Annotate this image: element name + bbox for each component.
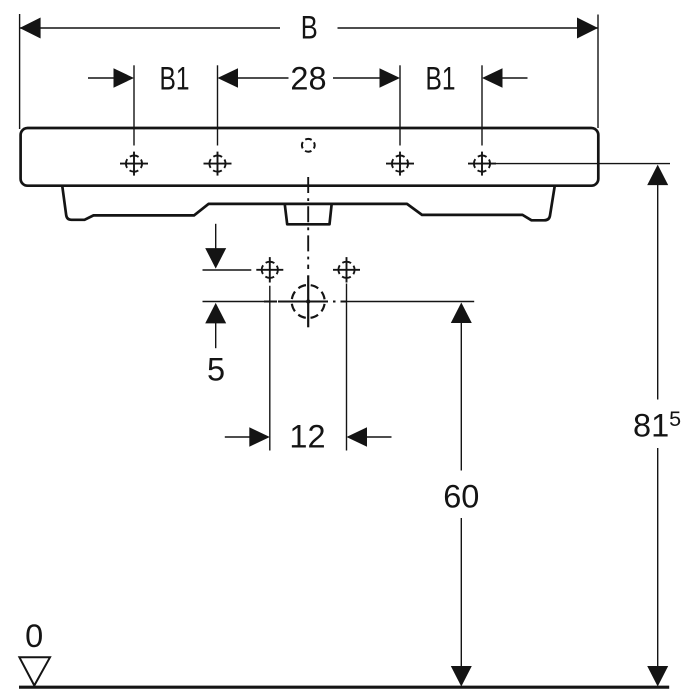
dimension 28 right arrow (380, 68, 401, 87)
horizontal centerline dash-dot (264, 301, 347, 303)
dimension B arrow left (20, 18, 41, 39)
washbasin apron profile (62, 186, 555, 221)
svg-text:12: 12 (289, 419, 325, 455)
dimension 12 right shaft (367, 436, 392, 438)
dimension 28 right shaft (333, 77, 380, 79)
dimension 60 shaft upper (460, 323, 462, 471)
reference line from hole 4 to 81.5 dimension (482, 163, 670, 165)
dimension B1 right arrow (482, 68, 503, 87)
dimension 12 left arrow (249, 427, 269, 446)
overflow hole dashed circle (302, 139, 315, 152)
fixing hole crosshair 1 (120, 152, 148, 176)
svg-text:60: 60 (443, 479, 479, 515)
dimension 60 bottom arrow (451, 666, 472, 687)
dimension B extension line left (19, 14, 21, 129)
vertical centerline dash-dot (307, 177, 309, 269)
dimension B1 left arrow (114, 68, 135, 87)
tap hole crosshair left (256, 257, 283, 282)
dimension B1 left shaft (88, 77, 114, 79)
tap hole crosshair right (333, 257, 360, 282)
extension line hole 2 (217, 65, 219, 145)
dimension 81.5 bottom arrow (647, 666, 668, 687)
dimension B arrow right (577, 18, 598, 39)
extension line tap hole left (269, 286, 271, 451)
dimension B extension line right (597, 15, 599, 129)
svg-text:28: 28 (290, 61, 326, 97)
dimension 12 right arrow (347, 427, 368, 446)
dimension 5 top arrow shaft (215, 224, 217, 249)
dimension 81.5 top arrow (647, 165, 668, 186)
drain notch (285, 205, 332, 225)
dimension 28 left shaft (238, 77, 289, 79)
dimension 60 top arrow (451, 303, 472, 324)
svg-text:0: 0 (25, 618, 43, 654)
svg-text:B1: B1 (160, 61, 190, 97)
faucet hole horizontal tick (278, 301, 325, 303)
dimension 5 bottom arrow (205, 303, 226, 324)
reference line to 60 dimension (347, 301, 474, 303)
dimension 60 shaft lower (460, 518, 462, 667)
dimension B line (20, 27, 280, 29)
ground line (19, 686, 669, 689)
fixing hole crosshair 4 (468, 152, 496, 176)
svg-text:5: 5 (207, 351, 225, 387)
dimension B1 right shaft (503, 77, 528, 79)
horizontal centerline: solid segment (203, 301, 265, 303)
fixing hole crosshair 2 (204, 152, 232, 176)
svg-text:B: B (301, 10, 318, 46)
extension line tap hole right (346, 284, 348, 451)
extension line hole 1 (133, 65, 135, 145)
reference line for 5 dimension top (203, 269, 252, 271)
faucet hole dashed circle (292, 285, 325, 318)
extension line hole 4 (481, 65, 483, 145)
faucet hole center dot (306, 299, 310, 303)
dimension 5 top arrow (205, 248, 226, 269)
washbasin outline (21, 128, 599, 186)
faucet hole vertical tick (307, 275, 309, 327)
dimension 81.5 shaft upper (657, 185, 659, 400)
dimension 28 left arrow (218, 68, 239, 87)
datum triangle (19, 657, 50, 685)
svg-text:B1: B1 (426, 61, 456, 97)
fixing hole crosshair 3 (386, 152, 414, 176)
dimension 12 left shaft (225, 436, 250, 438)
extension line hole 3 (399, 65, 401, 145)
dimension 81.5 shaft lower (657, 448, 659, 667)
dimension 5 bottom shaft (215, 323, 217, 348)
